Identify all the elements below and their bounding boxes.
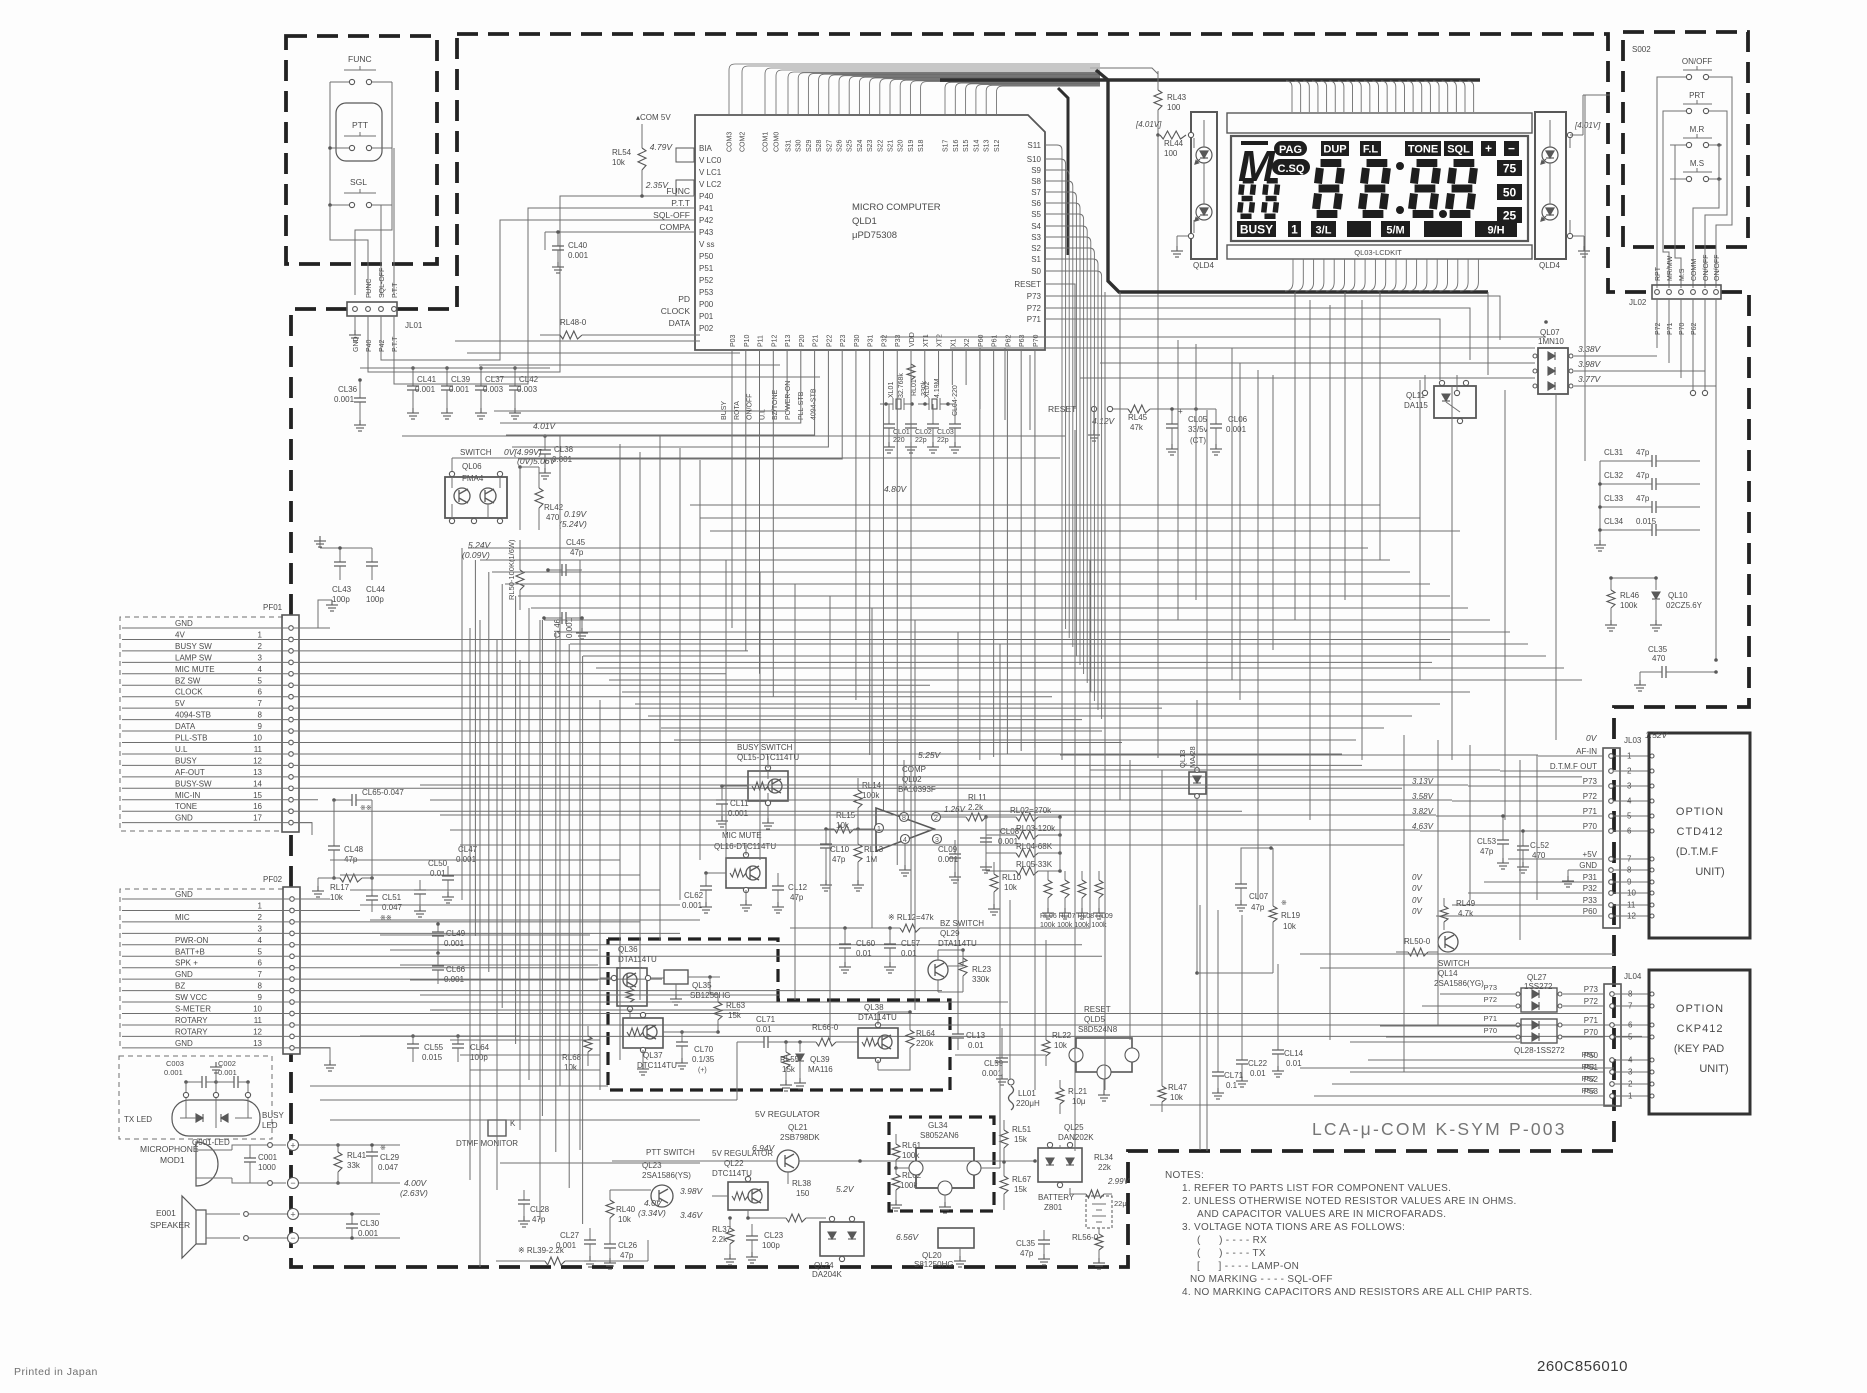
- svg-text:0V: 0V: [1412, 873, 1422, 882]
- C003 cap: [202, 1076, 206, 1088]
- wire mesh: bottom verticals: [979, 348, 981, 409]
- svg-text:QL37: QL37: [643, 1051, 663, 1060]
- svg-text:QL38: QL38: [864, 1003, 884, 1012]
- svg-text:CLOCK: CLOCK: [175, 688, 203, 697]
- svg-text:MIC: MIC: [175, 913, 190, 922]
- svg-text:P70: P70: [1484, 1026, 1497, 1035]
- svg-text:P53: P53: [699, 288, 714, 297]
- svg-text:0.003: 0.003: [517, 385, 538, 394]
- svg-text:0V: 0V: [1586, 733, 1598, 743]
- svg-text:CL13: CL13: [966, 1031, 986, 1040]
- svg-text:220k: 220k: [916, 1039, 934, 1048]
- svg-text:QL25: QL25: [1064, 1123, 1084, 1132]
- wire mesh: micro bottom pin drops: [731, 350, 733, 628]
- svg-text:PD: PD: [678, 294, 690, 304]
- svg-text:SWITCH: SWITCH: [460, 448, 492, 457]
- svg-text:0.001: 0.001: [728, 809, 749, 818]
- svg-text:CL57: CL57: [901, 939, 921, 948]
- svg-text:P40: P40: [699, 192, 714, 201]
- svg-text:9: 9: [258, 722, 263, 731]
- svg-text:P02: P02: [699, 324, 714, 333]
- svg-text:CL53: CL53: [1477, 837, 1497, 846]
- svg-text:※ RL39-2.2k: ※ RL39-2.2k: [518, 1246, 565, 1255]
- svg-text:COM2: COM2: [740, 132, 747, 152]
- svg-text:LAMP SW: LAMP SW: [175, 653, 212, 662]
- svg-text:RL11: RL11: [968, 793, 987, 802]
- wire: [1157, 135, 1159, 758]
- svg-text:E001: E001: [156, 1208, 176, 1218]
- plus tag: [1481, 141, 1496, 156]
- S002 switch-unit dashed border: [1623, 32, 1748, 247]
- svg-text:CL51: CL51: [382, 893, 402, 902]
- svg-text:S19: S19: [908, 139, 915, 152]
- svg-text:DTA114TU: DTA114TU: [618, 955, 657, 964]
- svg-text:RL21: RL21: [1068, 1087, 1088, 1096]
- svg-text:U.L: U.L: [175, 745, 188, 754]
- svg-text:RL06 RL07 RL08 RL09: RL06 RL07 RL08 RL09: [1040, 913, 1113, 920]
- svg-text:S26: S26: [837, 139, 844, 152]
- svg-text:5V: 5V: [175, 699, 185, 708]
- svg-text:MIC-IN: MIC-IN: [175, 791, 201, 800]
- switch PTT: [336, 103, 382, 161]
- svg-text:0.01: 0.01: [756, 1025, 772, 1034]
- svg-text:0.001: 0.001: [164, 1068, 183, 1077]
- svg-text:PTT: PTT: [352, 120, 368, 130]
- svg-text:S31: S31: [786, 139, 793, 152]
- svg-text:BUSY-SW: BUSY-SW: [175, 779, 212, 788]
- PF01 pin BUSY SW: [289, 649, 294, 654]
- svg-text:33k: 33k: [347, 1161, 361, 1170]
- svg-text:15: 15: [253, 791, 262, 800]
- svg-text:[4.01V]: [4.01V]: [1574, 121, 1601, 130]
- svg-text:32.768k: 32.768k: [898, 373, 905, 398]
- wire mesh: bottom long rows: [310, 1085, 608, 1087]
- svg-text:CTD412: CTD412: [1677, 826, 1724, 838]
- svg-text:V LC0: V LC0: [699, 156, 722, 165]
- svg-text:+5V: +5V: [1583, 850, 1598, 859]
- micro top pin fan into bundle: [729, 64, 1100, 115]
- svg-text:150: 150: [796, 1189, 810, 1198]
- JL01 downward wires: [354, 316, 356, 330]
- svg-text:BIA: BIA: [699, 144, 713, 153]
- svg-text:CL39: CL39: [451, 375, 471, 384]
- svg-text:S3: S3: [1031, 233, 1041, 242]
- svg-text:DTMF MONITOR: DTMF MONITOR: [456, 1139, 518, 1148]
- svg-text:PF02: PF02: [263, 875, 283, 884]
- svg-text:CL44: CL44: [366, 585, 386, 594]
- svg-text:S-METER: S-METER: [175, 1005, 211, 1014]
- svg-text:P10: P10: [744, 334, 751, 347]
- svg-text:COMM: COMM: [1691, 259, 1698, 281]
- svg-text:OPTION: OPTION: [1676, 806, 1724, 818]
- P.T.T net: [394, 208, 695, 384]
- svg-text:P33: P33: [1583, 896, 1598, 905]
- CL40: [557, 232, 559, 246]
- svg-text:P72: P72: [1584, 997, 1599, 1006]
- svg-text:P13: P13: [785, 334, 792, 347]
- svg-text:CL03: CL03: [937, 429, 954, 436]
- svg-text:47p: 47p: [832, 855, 846, 864]
- svg-text:100p: 100p: [470, 1053, 488, 1062]
- svg-text:LL01: LL01: [1018, 1089, 1036, 1098]
- svg-text:C003: C003: [166, 1059, 184, 1068]
- wire mesh: lower rows: [1060, 754, 1538, 756]
- right bracket wiring: [1567, 132, 1572, 137]
- svg-text:260C856010: 260C856010: [1537, 1358, 1628, 1375]
- svg-text:P52: P52: [1582, 1074, 1595, 1083]
- svg-text:BZ: BZ: [175, 982, 185, 991]
- svg-text:S8: S8: [1031, 177, 1041, 186]
- svg-text:15k: 15k: [1014, 1185, 1028, 1194]
- svg-text:※: ※: [1281, 900, 1287, 907]
- wire mesh: S pins right side arcs down: [1045, 145, 1062, 620]
- svg-text:FMA4: FMA4: [462, 474, 484, 483]
- PF01 pin U.L: [289, 752, 294, 757]
- PF01 pin DATA: [289, 729, 294, 734]
- svg-text:QL27: QL27: [1527, 973, 1547, 982]
- LED bracket right QLD4: [1535, 112, 1566, 259]
- svg-text:S13: S13: [984, 139, 991, 152]
- svg-text:33/5v: 33/5v: [1188, 425, 1208, 434]
- svg-text:RL05-33K: RL05-33K: [1016, 860, 1053, 869]
- svg-text:1: 1: [258, 901, 263, 910]
- svg-text:RL40: RL40: [616, 1205, 636, 1214]
- CL26 cap: [609, 1232, 611, 1244]
- svg-text:10k: 10k: [1283, 922, 1297, 931]
- svg-text:S5: S5: [1031, 210, 1041, 219]
- svg-text:DATA: DATA: [669, 318, 691, 328]
- svg-text:F.L: F.L: [1363, 144, 1379, 156]
- svg-text:QL28-1SS272: QL28-1SS272: [1514, 1046, 1565, 1055]
- svg-text:QL22: QL22: [724, 1159, 744, 1168]
- svg-text:10k: 10k: [612, 158, 626, 167]
- svg-text:JL01: JL01: [405, 321, 423, 330]
- svg-text:P71: P71: [1584, 1016, 1599, 1025]
- svg-text:3.77V: 3.77V: [1578, 374, 1602, 384]
- svg-text:P03: P03: [730, 334, 737, 347]
- wire mesh: mid rows: [468, 547, 1368, 549]
- svg-text:※※: ※※: [380, 915, 392, 922]
- svg-text:P62: P62: [1691, 322, 1698, 335]
- PF01 pin GND: [289, 820, 294, 825]
- svg-text:4.80V: 4.80V: [884, 484, 908, 494]
- svg-text:LED: LED: [262, 1121, 278, 1130]
- svg-text:12: 12: [253, 1027, 262, 1036]
- svg-text:P23: P23: [840, 334, 847, 347]
- svg-text:M.R: M.R: [1690, 125, 1705, 134]
- svg-text:0.047: 0.047: [378, 1163, 399, 1172]
- svg-text:−: −: [290, 1178, 295, 1188]
- svg-text:S29: S29: [806, 139, 813, 152]
- svg-text:CL23: CL23: [764, 1231, 784, 1240]
- svg-text:P43: P43: [699, 228, 714, 237]
- svg-text:MIC MUTE: MIC MUTE: [722, 831, 762, 840]
- svg-text:(3.34V): (3.34V): [638, 1208, 666, 1218]
- svg-text:10k: 10k: [618, 1215, 632, 1224]
- svg-text:+: +: [290, 1141, 295, 1151]
- svg-text:ROTA: ROTA: [734, 401, 741, 420]
- svg-text:CL66: CL66: [446, 965, 466, 974]
- svg-text:P51: P51: [1582, 1062, 1595, 1071]
- svg-text:RL22: RL22: [1052, 1031, 1072, 1040]
- svg-text:BUSY: BUSY: [262, 1111, 284, 1120]
- svg-text:P.T.T: P.T.T: [392, 336, 399, 352]
- svg-text:3.38V: 3.38V: [1578, 344, 1602, 354]
- svg-text:M: M: [1238, 142, 1276, 191]
- svg-text:GND: GND: [175, 619, 193, 628]
- svg-text:ON/OFF: ON/OFF: [747, 394, 754, 420]
- svg-text:220μH: 220μH: [1016, 1099, 1040, 1108]
- svg-text:−: −: [1508, 142, 1515, 156]
- PF02 off-board dashed outline: [120, 889, 283, 1050]
- svg-text:GND: GND: [175, 1039, 193, 1048]
- svg-text:02CZ5.6Y: 02CZ5.6Y: [1666, 601, 1703, 610]
- svg-text:0.001: 0.001: [444, 939, 465, 948]
- svg-text:2.2k: 2.2k: [712, 1235, 728, 1244]
- svg-text:5/M: 5/M: [1386, 225, 1404, 237]
- svg-text:12: 12: [253, 756, 262, 765]
- svg-text:CL43: CL43: [332, 585, 352, 594]
- svg-text:BUSY: BUSY: [175, 756, 197, 765]
- svg-text:P63: P63: [1019, 334, 1026, 347]
- svg-text:P42: P42: [699, 216, 714, 225]
- svg-text:COM1: COM1: [763, 132, 770, 152]
- audio sub-circuit dark dashed box: [608, 939, 950, 1090]
- RL06..RL09 resistors: [1047, 871, 1049, 880]
- svg-text:0.003: 0.003: [483, 385, 504, 394]
- svg-text:MIC MUTE: MIC MUTE: [175, 665, 215, 674]
- svg-text:4.7k: 4.7k: [1458, 909, 1474, 918]
- svg-text:CL33: CL33: [1604, 494, 1624, 503]
- svg-text:CL27: CL27: [560, 1231, 580, 1240]
- svg-text:+: +: [1178, 407, 1183, 416]
- svg-text:P30: P30: [854, 334, 861, 347]
- PAG oval: [1274, 141, 1307, 156]
- svg-text:11: 11: [254, 1016, 263, 1025]
- svg-text:(5.24V): (5.24V): [559, 519, 587, 529]
- svg-text:PF01: PF01: [263, 603, 283, 612]
- svg-text:COM3: COM3: [727, 132, 734, 152]
- svg-text:5V REGULATOR: 5V REGULATOR: [712, 1149, 773, 1158]
- svg-text:MA/28: MA/28: [1188, 746, 1197, 768]
- svg-text:XL01: XL01: [888, 382, 895, 398]
- C001 cap: [249, 1145, 251, 1158]
- svg-text:D.T.M.F OUT: D.T.M.F OUT: [1550, 762, 1597, 771]
- svg-text:CL41: CL41: [417, 375, 437, 384]
- svg-text:1.26V: 1.26V: [944, 805, 966, 814]
- svg-text:M.S: M.S: [1679, 268, 1686, 281]
- svg-text:CL52: CL52: [1530, 841, 1550, 850]
- svg-text:5V REGULATOR: 5V REGULATOR: [755, 1109, 820, 1119]
- svg-text:C001: C001: [258, 1153, 278, 1162]
- svg-text:(0.09V): (0.09V): [462, 550, 490, 560]
- svg-text:※: ※: [380, 1145, 386, 1152]
- svg-text:CL36: CL36: [338, 385, 358, 394]
- svg-text:MR/MW: MR/MW: [1667, 255, 1674, 281]
- svg-text:0.001: 0.001: [982, 1069, 1003, 1078]
- svg-text:CL14: CL14: [1284, 1049, 1304, 1058]
- svg-text:CL49: CL49: [446, 929, 466, 938]
- svg-text:P40: P40: [366, 339, 373, 352]
- svg-text:P60: P60: [978, 334, 985, 347]
- svg-text:3/L: 3/L: [1316, 225, 1332, 237]
- svg-text:5: 5: [258, 676, 263, 685]
- svg-text:XT2: XT2: [937, 334, 944, 347]
- svg-text:+: +: [290, 1210, 295, 1220]
- svg-text:50: 50: [1503, 186, 1517, 200]
- svg-text:P73: P73: [1027, 292, 1042, 301]
- svg-text:0.01: 0.01: [968, 1041, 984, 1050]
- svg-text:Z801: Z801: [1044, 1203, 1063, 1212]
- svg-text:RL17: RL17: [330, 883, 350, 892]
- svg-text:CL06: CL06: [1228, 415, 1248, 424]
- svg-text:TONE: TONE: [175, 802, 197, 811]
- svg-text:RL47: RL47: [1168, 1083, 1188, 1092]
- svg-text:S6: S6: [1031, 199, 1041, 208]
- DTMF MONITOR: [488, 1120, 506, 1136]
- svg-text:CL45: CL45: [566, 538, 586, 547]
- QL35: [664, 970, 688, 984]
- svg-text:GL34: GL34: [928, 1121, 948, 1130]
- svg-text:CL40: CL40: [568, 241, 588, 250]
- svg-text:BUSY: BUSY: [1240, 223, 1273, 237]
- svg-text:POWER-ON: POWER-ON: [785, 381, 792, 420]
- svg-text:2.2k: 2.2k: [968, 803, 984, 812]
- svg-text:13: 13: [253, 768, 262, 777]
- F.L tag: [1360, 141, 1381, 156]
- svg-text:RL10: RL10: [1002, 873, 1022, 882]
- PF01 off-board dashed outline: [120, 617, 283, 831]
- svg-text:RL66-0: RL66-0: [812, 1023, 839, 1032]
- left bracket LED chain: [1193, 138, 1195, 148]
- svg-text:CL35: CL35: [1648, 645, 1668, 654]
- 25 tag: [1497, 207, 1522, 223]
- svg-text:QL21: QL21: [788, 1123, 808, 1132]
- svg-text:S8D524N8: S8D524N8: [1078, 1025, 1118, 1034]
- svg-text:2.99V: 2.99V: [1107, 1177, 1130, 1186]
- thick display bus to LCD top: [940, 78, 1480, 82]
- svg-text:S0: S0: [1031, 267, 1041, 276]
- svg-text:TONE: TONE: [1408, 144, 1438, 156]
- svg-text:CL71: CL71: [1224, 1071, 1244, 1080]
- svg-text:RL38: RL38: [792, 1179, 812, 1188]
- svg-text:BZ SWITCH: BZ SWITCH: [940, 919, 984, 928]
- svg-text:P72: P72: [1583, 792, 1598, 801]
- svg-text:BUSY: BUSY: [721, 401, 728, 420]
- svg-text:7: 7: [258, 699, 263, 708]
- svg-text:BZ SW: BZ SW: [175, 676, 201, 685]
- svg-text:FUNC: FUNC: [666, 186, 690, 196]
- svg-text:P12: P12: [771, 334, 778, 347]
- svg-text:2. UNLESS OTHERWISE NOTED RESI: 2. UNLESS OTHERWISE NOTED RESISTOR VALUE…: [1182, 1196, 1517, 1207]
- svg-text:0.001: 0.001: [415, 385, 436, 394]
- svg-text:1SS272: 1SS272: [1524, 982, 1553, 991]
- svg-text:PAG: PAG: [1279, 144, 1302, 156]
- svg-text:75: 75: [1503, 162, 1517, 176]
- COMPA net: [545, 231, 695, 233]
- svg-text:25: 25: [1503, 209, 1517, 223]
- svg-text:P41: P41: [699, 204, 714, 213]
- QL28 1SS272 diode pack: [1521, 1019, 1557, 1043]
- CL11 cap: [721, 786, 723, 800]
- svg-text:0.001: 0.001: [449, 385, 470, 394]
- svg-text:GND: GND: [175, 814, 193, 823]
- svg-text:P73: P73: [1583, 777, 1598, 786]
- svg-text:RL51: RL51: [1012, 1125, 1032, 1134]
- svg-text:3.46V: 3.46V: [680, 1210, 704, 1220]
- svg-text:4.00V: 4.00V: [404, 1178, 428, 1188]
- svg-text:1.52V: 1.52V: [1645, 730, 1669, 740]
- svg-text:9: 9: [258, 993, 263, 1002]
- svg-text:S11: S11: [1027, 141, 1041, 150]
- svg-text:( ) - - - - RX: ( ) - - - - RX: [1197, 1235, 1267, 1246]
- svg-text:CL29: CL29: [380, 1153, 400, 1162]
- small digits 88: [1240, 181, 1254, 217]
- PF01 pin BZ SW: [289, 683, 294, 688]
- svg-text:SPEAKER: SPEAKER: [150, 1220, 190, 1230]
- CL60/CL57 caps: [844, 928, 846, 944]
- svg-text:P11: P11: [758, 335, 765, 347]
- LED bracket left QLD4: [1191, 112, 1217, 259]
- svg-text:OPTION: OPTION: [1676, 1003, 1724, 1015]
- svg-text:100p: 100p: [332, 595, 350, 604]
- svg-text:V LC1: V LC1: [699, 168, 722, 177]
- svg-text:10μ: 10μ: [1072, 1097, 1086, 1106]
- svg-text:22p: 22p: [937, 437, 949, 444]
- svg-text:CL32: CL32: [1604, 471, 1624, 480]
- svg-text:4: 4: [903, 837, 907, 844]
- svg-text:0.047: 0.047: [382, 903, 403, 912]
- svg-text:CL02: CL02: [915, 429, 932, 436]
- svg-text:3.98V: 3.98V: [1578, 359, 1602, 369]
- svg-text:GND: GND: [1579, 861, 1597, 870]
- svg-text:PTT SWITCH: PTT SWITCH: [646, 1148, 695, 1157]
- svg-text:0.1: 0.1: [1226, 1081, 1238, 1090]
- svg-text:PLL-STB: PLL-STB: [175, 734, 207, 743]
- svg-text:CL30: CL30: [360, 1219, 380, 1228]
- svg-text:RL43: RL43: [1167, 93, 1187, 102]
- svg-text:10k: 10k: [1170, 1093, 1184, 1102]
- svg-text:DUP: DUP: [1323, 144, 1346, 156]
- svg-text:0.015: 0.015: [422, 1053, 443, 1062]
- svg-text:5.2V: 5.2V: [836, 1184, 855, 1194]
- svg-text:(+): (+): [698, 1067, 707, 1074]
- svg-text:QL23: QL23: [642, 1161, 662, 1170]
- svg-text:CL12: CL12: [788, 883, 808, 892]
- svg-text:0.01: 0.01: [1250, 1069, 1266, 1078]
- LCD unit QL03-LCDKIT frame: [1227, 113, 1532, 133]
- svg-text:100k: 100k: [862, 791, 880, 800]
- svg-text:LCA-μ-COM K-SYM P-003: LCA-μ-COM K-SYM P-003: [1312, 1119, 1567, 1139]
- svg-text:CL07: CL07: [1249, 892, 1269, 901]
- svg-text:2SB798DK: 2SB798DK: [780, 1133, 820, 1142]
- svg-text:BUSY SW: BUSY SW: [175, 642, 212, 651]
- svg-text:S20: S20: [898, 139, 905, 152]
- RL43 resistor: [1157, 71, 1159, 90]
- svg-text:2: 2: [258, 913, 263, 922]
- svg-text:DATA: DATA: [175, 722, 196, 731]
- svg-text:AF-IN: AF-IN: [1576, 747, 1597, 756]
- svg-text:S27: S27: [826, 139, 833, 152]
- QL37: [623, 1018, 663, 1048]
- svg-text:RL56-0: RL56-0: [1072, 1233, 1099, 1242]
- wire mesh: left rows: [455, 340, 700, 342]
- SQL-OFF net: [381, 220, 695, 360]
- svg-text:COMP: COMP: [902, 765, 926, 774]
- svg-text:9/H: 9/H: [1487, 225, 1504, 237]
- JL02 downward wires: [1656, 299, 1658, 348]
- svg-text:6: 6: [258, 959, 263, 968]
